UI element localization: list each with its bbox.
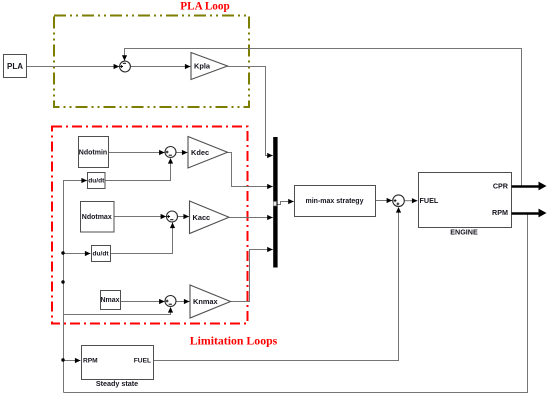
sum junction S4: [165, 296, 176, 307]
sum junction S3: [167, 211, 178, 222]
svg-text:FUEL: FUEL: [134, 357, 151, 364]
wire du/dt 2 to sum S3: [111, 223, 173, 254]
ENGINE CPR output arrow: [512, 185, 540, 188]
svg-text:Knmax: Knmax: [193, 297, 219, 306]
sum junction S1: [120, 61, 131, 72]
wire feedback branch to sum S4: [64, 308, 171, 315]
svg-text:Limitation Loops: Limitation Loops: [190, 333, 278, 347]
svg-text:Steady state: Steady state: [96, 379, 138, 388]
svg-text:FUEL: FUEL: [420, 196, 439, 205]
wire PLA to sum S1: [27, 66, 120, 68]
wire gain Kdec to mux input 2: [228, 153, 273, 187]
sum junction S2: [165, 147, 176, 158]
PLA Loop boundary box: [54, 16, 249, 108]
svg-text:Kacc: Kacc: [193, 213, 211, 222]
wire min-max strategy to sum S5: [376, 200, 393, 202]
svg-text:CPR: CPR: [493, 182, 509, 191]
wire feedback branch to du/dt 2: [64, 253, 91, 255]
source block Nmax: [101, 291, 121, 310]
derivative block du/dt 2: [92, 246, 111, 262]
svg-text:Nmax: Nmax: [100, 297, 119, 304]
svg-text:RPM: RPM: [492, 208, 508, 217]
wire CPR feedback to sum S1: [125, 49, 522, 187]
source block Ndotmin: [79, 137, 109, 168]
Limitation Loops boundary box: [52, 127, 248, 324]
sum junction S5: [393, 195, 405, 207]
svg-text:du/dt: du/dt: [92, 250, 109, 257]
wire RPM feedback bottom run: [64, 214, 528, 393]
svg-text:RPM: RPM: [83, 357, 98, 364]
wire mux to min-max strategy: [278, 202, 294, 205]
derivative block du/dt 1: [88, 173, 106, 189]
wire gain Kacc to mux input 3: [230, 217, 273, 219]
wire feedback branch to Steady state RPM: [64, 360, 81, 362]
svg-text:Ndotmax: Ndotmax: [82, 214, 112, 221]
svg-text:min-max strategy: min-max strategy: [306, 198, 364, 205]
wire RPM feedback trunk: [64, 181, 88, 393]
svg-text:PLA Loop: PLA Loop: [180, 1, 229, 13]
input block PLA: [4, 55, 27, 78]
wire gain Kpla to mux input 1: [228, 67, 273, 156]
svg-text:Kdec: Kdec: [191, 148, 209, 157]
wire Ndotmin to sum S2: [109, 152, 165, 154]
svg-text:Ndotmin: Ndotmin: [79, 150, 107, 157]
gain Kdec: [188, 137, 228, 169]
source block Ndotmax: [81, 202, 115, 233]
wire Steady state FUEL to sum S5: [154, 208, 399, 361]
svg-text:Kpla: Kpla: [194, 62, 211, 71]
gain Kacc: [190, 201, 230, 234]
ENGINE RPM output arrow: [512, 212, 540, 215]
wire gain Knmax to mux input 4: [231, 250, 273, 302]
wire sum S3 to gain Kacc: [178, 216, 190, 218]
mux bar: [273, 137, 277, 268]
Steady state block: [82, 346, 154, 380]
svg-text:ENGINE: ENGINE: [450, 228, 478, 237]
wire Ndotmax to sum S3: [114, 216, 167, 218]
ENGINE block: [419, 173, 512, 228]
gain Knmax: [190, 285, 231, 318]
block min-max strategy: [295, 186, 376, 217]
gain Kpla: [191, 53, 228, 80]
wire sum S2 to gain Kdec: [177, 152, 188, 154]
wire sum S4 to gain Knmax: [177, 301, 190, 303]
wire sum S1 to gain Kpla: [131, 66, 191, 68]
wire du/dt 1 to sum S2: [106, 159, 171, 181]
svg-text:PLA: PLA: [7, 62, 23, 71]
svg-text:du/dt: du/dt: [88, 177, 105, 184]
wire Nmax to sum S4: [121, 301, 165, 303]
wire sum S5 to ENGINE: [404, 200, 417, 202]
